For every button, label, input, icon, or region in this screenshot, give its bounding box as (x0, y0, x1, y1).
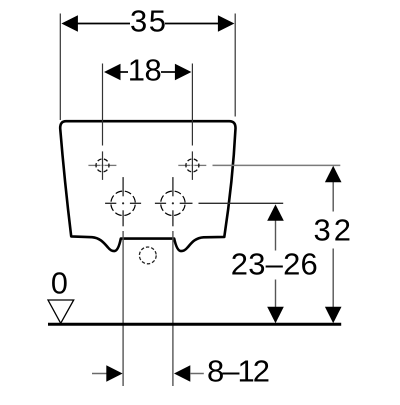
svg-text:18: 18 (128, 53, 162, 88)
floor line (48, 323, 341, 326)
dimension 18 left arrowhead (104, 64, 121, 80)
dimension 23-26 up arrowhead (267, 204, 284, 220)
svg-text:0: 0 (51, 266, 68, 301)
dimension 8-12 left arrowhead (points right) (106, 365, 122, 381)
dimension 35 right arrowhead (218, 15, 235, 31)
extension line right of dim 35 (234, 14, 236, 117)
dimension 35 line (78, 23, 131, 25)
right supply hole crosshair (172, 177, 174, 196)
gray reference line from right fixing hole to dim 32 (213, 164, 341, 166)
dimension 23-26 down arrowhead (267, 307, 284, 324)
dimension 32 down arrowhead (325, 307, 342, 324)
drain dashed circle (139, 247, 156, 264)
dimension 32 vertical line (332, 182, 334, 212)
gray vertical line from right supply hole to dim 8-12 (172, 231, 174, 386)
extension line left of dim 35 (59, 14, 61, 121)
dimension 8-12 right tail line (190, 373, 204, 375)
dimension 18 right arrowhead (175, 64, 192, 80)
ceramic bidet body outline (60, 121, 235, 251)
left fixing hole crosshair (102, 151, 104, 180)
svg-text:23–26: 23–26 (231, 246, 318, 281)
dimension 8-12 right arrowhead (points left) (174, 365, 190, 381)
dimension 18 line (120, 71, 128, 73)
svg-text:35: 35 (130, 4, 166, 39)
gray vertical line from left supply hole to dim 8-12 (122, 231, 124, 386)
extension line right of dim 18 (191, 64, 193, 146)
zero level datum triangle (48, 300, 74, 323)
extension line left of dim 18 (102, 64, 104, 146)
gray reference line from right supply hole to dim 23-26 (199, 202, 284, 204)
left supply hole crosshair (122, 177, 124, 196)
dimension 8-12 left tail line (92, 373, 107, 375)
dimension 32 up arrowhead (325, 166, 342, 183)
dimension 23-26 vertical line (275, 221, 277, 251)
svg-text:8–12: 8–12 (207, 353, 270, 388)
right fixing hole crosshair (191, 151, 193, 180)
dimension 35 left arrowhead (61, 15, 78, 31)
